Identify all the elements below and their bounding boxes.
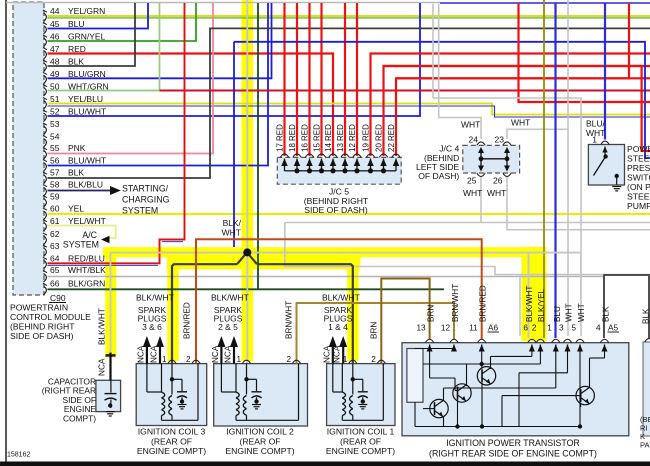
coil 1 internal transformer and capacitor bbox=[352, 364, 354, 380]
svg-text:BLK/WHT: BLK/WHT bbox=[136, 293, 174, 303]
wire WHT gray core bend down toward pin 5 (joins x581) bbox=[580, 253, 582, 300]
svg-text:55: 55 bbox=[50, 143, 60, 153]
wire pin 64 RED/BLU blue stripe lower part bbox=[48, 264, 159, 266]
svg-text:SYSTEM: SYSTEM bbox=[63, 240, 99, 250]
capacitor wire yellow end tick bbox=[106, 354, 116, 357]
highlighted circuit - yellow vertical band to ignition coil 1 pin 1 bbox=[347, 257, 359, 362]
J/C 4 internal double arrows and tie bar bbox=[480, 149, 482, 171]
highlighted circuit - yellow vertical band to ignition coil 3 pin 1 bbox=[167, 257, 179, 362]
wire WHT gray from top to J/C 4 pin 24 bbox=[439, 4, 481, 139]
svg-text:2 & 5: 2 & 5 bbox=[218, 322, 238, 332]
J/C 5 pin 18 connector bump bbox=[293, 154, 301, 157]
svg-text:13: 13 bbox=[416, 324, 426, 333]
svg-text:1: 1 bbox=[592, 135, 597, 145]
svg-text:WHT: WHT bbox=[461, 120, 480, 130]
svg-text:2: 2 bbox=[371, 355, 376, 364]
transistor Q2 symbol bbox=[453, 384, 471, 402]
transistor pin 4 internal arrow bbox=[604, 345, 606, 351]
svg-text:PRESSURE: PRESSURE bbox=[627, 163, 650, 173]
svg-text:RED: RED bbox=[362, 124, 371, 141]
capacitor internal symbol bbox=[110, 380, 112, 392]
wire WHT gray vertical x433 from top bbox=[432, 4, 434, 98]
PCM pin 46 connector bracket bbox=[43, 35, 47, 37]
svg-text:WHT: WHT bbox=[487, 188, 506, 198]
coil 3 internal transformer and capacitor bbox=[171, 364, 173, 380]
transistor internal wiring bbox=[415, 348, 454, 350]
svg-text:YEL: YEL bbox=[68, 204, 84, 214]
J/C 5 pin 19 connector bump bbox=[366, 154, 374, 157]
highlighted BLK/WHT circuit - yellow band vertical from top to junction bbox=[242, 0, 254, 253]
svg-text:18: 18 bbox=[288, 143, 297, 152]
svg-text:19: 19 bbox=[362, 143, 371, 152]
svg-text:1 & 4: 1 & 4 bbox=[328, 322, 348, 332]
svg-text:(REAR OF: (REAR OF bbox=[340, 436, 381, 446]
ignition coil 1 pin 1 bump bbox=[349, 360, 357, 363]
PCM pin 53 connector bracket bbox=[43, 123, 47, 125]
wire WHT gray from J/C 4 pin 23 right bbox=[507, 129, 568, 139]
svg-text:NCA: NCA bbox=[211, 345, 220, 363]
svg-text:(ON POWER: (ON POWER bbox=[627, 182, 650, 192]
J/C 4 pin 24 connector bump bbox=[477, 142, 485, 145]
svg-text:ENGINE COMPT): ENGINE COMPT) bbox=[137, 446, 206, 456]
svg-text:RED: RED bbox=[387, 124, 396, 141]
svg-text:BLU: BLU bbox=[553, 306, 562, 322]
svg-text:48: 48 bbox=[50, 57, 60, 67]
highlighted circuit - yellow vertical band to capacitor bbox=[105, 247, 116, 357]
svg-text:CONTROL MODULE: CONTROL MODULE bbox=[10, 312, 91, 322]
svg-text:NCA: NCA bbox=[136, 345, 145, 363]
svg-text:IGNITION POWER TRANSISTOR: IGNITION POWER TRANSISTOR bbox=[446, 438, 580, 448]
wire pin 55 PNK right then up to top bbox=[48, 3, 214, 154]
wire RED from right edge lane y78.3 down to J/C 5 pin 22 bbox=[396, 78, 650, 156]
svg-text:NCA: NCA bbox=[97, 358, 107, 376]
wire pin 64 RED/BLU with jog then up to top bbox=[48, 3, 185, 263]
PCM pin 45 connector bracket bbox=[43, 23, 47, 25]
PCM pin 58 connector bracket bbox=[43, 185, 47, 187]
wire BLU vertical x234 down to highlight band bbox=[233, 42, 235, 247]
wire pin 48 BLK right then up to top bbox=[48, 3, 136, 66]
svg-text:BRN/RED: BRN/RED bbox=[183, 302, 192, 339]
J/C 5 bus junction dot bbox=[294, 168, 299, 173]
J/C 5 bus junction dot bbox=[354, 168, 359, 173]
svg-text:RED: RED bbox=[313, 124, 322, 141]
transistor pin 13 internal arrow bbox=[429, 345, 431, 351]
svg-text:158162: 158162 bbox=[7, 452, 30, 459]
svg-text:13: 13 bbox=[336, 143, 345, 152]
svg-text:POWER: POWER bbox=[627, 144, 650, 154]
PCM pin 62 connector bracket bbox=[43, 233, 47, 235]
wire pin 46 GRN/YEL right then up to top bbox=[48, 3, 197, 41]
highlighted circuit - yellow vertical band to ignition coil 2 pin 1 bbox=[242, 253, 254, 361]
J/C 5 pin 12 connector bump bbox=[353, 154, 361, 157]
wire WHT gray vertical x568 to transistor pin 3 bbox=[567, 0, 569, 336]
svg-text:WHT: WHT bbox=[511, 118, 530, 128]
wire pin 65 WHT/BLK gray to transistor area bbox=[48, 276, 605, 278]
svg-text:(REAR OF: (REAR OF bbox=[239, 436, 280, 446]
svg-text:A5: A5 bbox=[608, 324, 618, 333]
ignition power transistor box bbox=[402, 343, 629, 436]
svg-text:WHT: WHT bbox=[565, 303, 574, 322]
wire RED lane y78.3 up to top at x629 bbox=[396, 3, 629, 78]
ignition coil 3 box bbox=[136, 364, 207, 426]
ignition coil 2 pin 2 bump bbox=[292, 360, 300, 363]
J/C 5 pin 20 internal arrow bbox=[383, 159, 385, 172]
svg-text:16: 16 bbox=[301, 143, 310, 152]
wire BLU/WHT vertical to power steering pressure switch bbox=[604, 3, 606, 140]
wire pin 50 WHT/GRN light green right then up to top bbox=[48, 3, 160, 91]
wire BLK/WHT dark core to ignition coil 3 pin 1 bbox=[172, 264, 237, 363]
power steering switch pin 1 bump bbox=[601, 141, 609, 144]
wire WHT gray from J/C 4 pin 26 down then right bbox=[507, 177, 650, 230]
svg-text:IGNITION COIL 1: IGNITION COIL 1 bbox=[327, 427, 395, 437]
wire RED lane y66 continuation right bbox=[384, 65, 642, 67]
ignition coil 2 box bbox=[214, 364, 308, 426]
wire WHT gray lane y222.5 to right edge bbox=[285, 222, 650, 224]
transistor Q1 symbol bbox=[430, 399, 448, 417]
svg-text:RED: RED bbox=[324, 124, 333, 141]
transistor pin 6 internal arrow bbox=[531, 345, 533, 351]
transistor pin 11 internal arrow bbox=[481, 345, 483, 351]
J/C 5 pin 14 connector bump bbox=[329, 154, 337, 157]
wire WHT gray stub down beside transistor pin 6 bbox=[519, 275, 521, 337]
wire RED from top down at x518.5 exiting right at y102 bbox=[519, 3, 650, 102]
PCM pin 50 connector bracket bbox=[43, 85, 47, 87]
coil 2 internal transformer and capacitor bbox=[246, 364, 248, 380]
svg-text:SYSTEM: SYSTEM bbox=[122, 206, 158, 216]
svg-text:A6: A6 bbox=[488, 324, 498, 333]
wire WHT gray core vertical through junction down to coil 2 bbox=[246, 0, 248, 363]
svg-text:60: 60 bbox=[50, 204, 60, 214]
svg-text:NCA: NCA bbox=[224, 345, 233, 363]
svg-text:BLK/GRN: BLK/GRN bbox=[68, 279, 105, 289]
wire RED crimson horizontal lane to right edge bbox=[160, 90, 650, 92]
bottom black border bar bbox=[0, 462, 650, 466]
svg-text:56: 56 bbox=[50, 156, 60, 166]
wire pin 64 RED/BLU blue stripe jog part bbox=[162, 241, 183, 243]
J/C 5 pin 13 internal arrow bbox=[344, 159, 346, 172]
svg-text:NCA: NCA bbox=[322, 345, 331, 363]
PCM pin 52 connector bracket bbox=[43, 110, 47, 112]
coil 2 NCA arrows (spark plug outputs) bbox=[217, 336, 225, 347]
svg-text:STEERING: STEERING bbox=[627, 192, 650, 202]
highlighted circuit - yellow horizontal band upper (to power transistor) bbox=[103, 247, 541, 257]
wire pin 47 RED right then down to J/C 5 pin 14 bbox=[48, 54, 334, 157]
PCM pin 51 connector bracket bbox=[43, 98, 47, 100]
svg-text:17: 17 bbox=[276, 143, 285, 152]
wire BLK stub into right edge component bbox=[648, 276, 650, 338]
svg-text:IGNITION COIL 3: IGNITION COIL 3 bbox=[138, 427, 206, 437]
svg-text:BRN/WHT: BRN/WHT bbox=[451, 284, 460, 322]
svg-text:BLK/BLU: BLK/BLU bbox=[68, 180, 103, 190]
svg-text:12: 12 bbox=[348, 143, 357, 152]
svg-text:62: 62 bbox=[50, 229, 60, 239]
wire RED to J/C 5 pin 16 from top bbox=[308, 3, 310, 156]
page left border line bbox=[5, 0, 7, 462]
wire pin 60 YEL to right edge bbox=[48, 213, 650, 215]
power steering switch ground bbox=[612, 186, 621, 188]
svg-text:PUMP): PUMP) bbox=[627, 201, 650, 211]
PCM pin 64 connector bracket bbox=[43, 257, 47, 259]
top blue wire lane bbox=[440, 2, 650, 4]
wire pin 51 YEL/BLU blue stripe bbox=[48, 106, 650, 117]
junction connector J/C 4 box bbox=[463, 145, 520, 173]
wire WHT gray lane y98 right then down to transistor pin 5 bbox=[433, 98, 581, 336]
svg-text:2: 2 bbox=[186, 355, 191, 364]
transistor Q4 symbol bbox=[576, 386, 594, 404]
wire RED from right edge lane y53.5 down to J/C 5 pin 19 bbox=[371, 54, 650, 157]
ignition coil 1 pin 2 bump bbox=[377, 360, 385, 363]
wire RED from right edge lane y66.0 down to J/C 5 pin 20 bbox=[384, 66, 650, 156]
wire BRN/RED from coil 3 pin 2 to transistor pin 11 bbox=[196, 239, 482, 363]
powertrain control module connector box C90 bbox=[13, 2, 44, 295]
svg-text:CHARGING: CHARGING bbox=[122, 195, 170, 205]
svg-text:RED: RED bbox=[288, 124, 297, 141]
J/C 5 pin 19 internal arrow bbox=[370, 159, 372, 172]
svg-text:STEERING: STEERING bbox=[627, 154, 650, 164]
svg-text:57: 57 bbox=[50, 168, 60, 178]
svg-text:BLK: BLK bbox=[602, 306, 611, 322]
ignition coil 3 pin 1 bump bbox=[168, 360, 176, 363]
J/C 5 pin 15 connector bump bbox=[317, 154, 325, 157]
PCM pin 44 connector bracket bbox=[43, 10, 47, 12]
transistor pin 11 bump bbox=[478, 339, 486, 342]
svg-text:RED: RED bbox=[276, 124, 285, 141]
transistor pin 2 bump bbox=[536, 339, 544, 342]
svg-text:24: 24 bbox=[469, 135, 479, 145]
svg-text:BLK/YEL: BLK/YEL bbox=[537, 288, 546, 322]
svg-text:WHT/BLK: WHT/BLK bbox=[68, 265, 106, 275]
svg-text:(REAR OF: (REAR OF bbox=[151, 436, 192, 446]
wire gray core down to capacitor bbox=[110, 253, 112, 353]
highlighted circuit - yellow diagonal right of junction bbox=[247, 252, 257, 266]
svg-text:RED: RED bbox=[375, 124, 384, 141]
svg-text:22: 22 bbox=[387, 143, 396, 152]
J/C 5 pin 22 internal arrow bbox=[395, 159, 397, 172]
wire pin 56 BLU/WHT right then up to top bbox=[48, 3, 269, 166]
PCM pin 49 connector bracket bbox=[43, 72, 47, 74]
wire RED to J/C 5 pin 17 from top bbox=[283, 3, 285, 156]
J/C 5 pin 16 internal arrow bbox=[309, 159, 311, 172]
svg-text:IGNITION COIL 2: IGNITION COIL 2 bbox=[226, 427, 294, 437]
svg-text:COMPT): COMPT) bbox=[63, 414, 96, 424]
highlighted circuit - yellow vertical band to transistor pin 6 bbox=[522, 247, 535, 341]
wire BRN from coil 1 pin 2 to transistor pin 13 bbox=[381, 279, 429, 364]
wire RED bend down at x641.6 exiting right bbox=[642, 66, 650, 151]
svg-text:BLK/WHT: BLK/WHT bbox=[525, 286, 534, 322]
svg-text:ENGINE COMPT): ENGINE COMPT) bbox=[225, 446, 294, 456]
svg-text:PNK: PNK bbox=[68, 143, 86, 153]
wire BLK/WHT diagonal right into junction bbox=[247, 252, 257, 264]
coil 1 NCA arrows (spark plug outputs) bbox=[329, 336, 337, 347]
junction dot of highlighted circuit bbox=[243, 248, 251, 256]
J/C 5 pin 18 internal arrow bbox=[296, 159, 298, 172]
wire gray core down to transistor pin 6 bbox=[528, 253, 530, 338]
wire WHT gray core horizontal through junction bbox=[111, 252, 581, 254]
transistor pin 1 bump bbox=[552, 339, 560, 342]
wire pin 66 BLK/GRN dark green bbox=[48, 288, 445, 290]
svg-text:45: 45 bbox=[50, 19, 60, 29]
svg-text:5: 5 bbox=[571, 324, 576, 333]
ignition coil 3 pin 2 bump bbox=[192, 360, 200, 363]
wire pin 52 BLU/WHT right then up to top bbox=[48, 3, 421, 116]
svg-text:20: 20 bbox=[375, 143, 384, 152]
wire pin 58 BLK/BLU to starting/charging system bbox=[48, 190, 111, 192]
svg-text:4: 4 bbox=[596, 324, 601, 333]
svg-text:1: 1 bbox=[236, 355, 241, 364]
svg-text:25: 25 bbox=[467, 176, 477, 186]
PCM pin 65 connector bracket bbox=[43, 271, 47, 273]
arrow to A/C system bbox=[101, 236, 110, 244]
svg-text:BLK/WHT: BLK/WHT bbox=[322, 293, 360, 303]
svg-text:STARTING/: STARTING/ bbox=[122, 184, 169, 194]
J/C 5 pin 16 connector bump bbox=[305, 154, 313, 157]
transistor pin 5 bump bbox=[576, 339, 584, 342]
svg-text:26: 26 bbox=[493, 176, 503, 186]
svg-text:BRN/WHT: BRN/WHT bbox=[285, 301, 294, 339]
J/C 5 bus junction dot bbox=[330, 168, 335, 173]
right edge component pin bump bbox=[645, 339, 650, 342]
J/C 5 bus junction dot bbox=[307, 168, 312, 173]
PCM pin 59 connector bracket bbox=[43, 196, 47, 198]
transistor pin 3 bump bbox=[563, 339, 571, 342]
transistor pin 5 internal arrow bbox=[579, 345, 581, 351]
ignition coil 2 pin 1 bump bbox=[242, 360, 250, 363]
transistor pin 13 bump bbox=[425, 339, 433, 342]
svg-text:BLK: BLK bbox=[68, 168, 84, 178]
J/C 5 bus junction dot bbox=[368, 168, 373, 173]
svg-text:OF DASH): OF DASH) bbox=[418, 171, 459, 181]
highlighted circuit - yellow vertical band to transistor pin 2 bbox=[534, 247, 547, 341]
svg-text:ENGINE COMPT): ENGINE COMPT) bbox=[326, 446, 395, 456]
PCM pin 48 connector bracket bbox=[43, 60, 47, 62]
svg-text:NCA: NCA bbox=[150, 345, 159, 363]
transistor pin 1 internal arrow bbox=[555, 345, 557, 351]
svg-text:64: 64 bbox=[50, 254, 60, 264]
svg-text:(BEHIND RIGHT: (BEHIND RIGHT bbox=[10, 322, 75, 332]
svg-text:BRN/RED: BRN/RED bbox=[479, 285, 488, 322]
svg-text:C90: C90 bbox=[50, 293, 66, 303]
power steering pressure switch box bbox=[588, 145, 624, 186]
wire pin 61 YEL/WHT loop to A/C system bbox=[48, 226, 116, 239]
J/C 5 bus junction dot bbox=[319, 168, 324, 173]
arrow to starting/charging system bbox=[110, 186, 121, 195]
svg-text:1: 1 bbox=[547, 324, 552, 333]
svg-text:BLK/WHT: BLK/WHT bbox=[97, 308, 107, 345]
transistor Q3 symbol bbox=[477, 367, 495, 385]
capacitor internal junction dot bbox=[108, 403, 112, 407]
J/C 5 pin 22 connector bump bbox=[392, 154, 400, 157]
transistor pin 2 internal arrow bbox=[539, 345, 541, 351]
svg-text:63: 63 bbox=[50, 241, 60, 251]
svg-text:WHT: WHT bbox=[463, 188, 482, 198]
svg-text:11: 11 bbox=[469, 324, 478, 333]
svg-text:23: 23 bbox=[495, 135, 505, 145]
J/C 5 pin 14 internal arrow bbox=[332, 159, 334, 172]
svg-text:BLK: BLK bbox=[68, 57, 84, 67]
svg-text:2: 2 bbox=[286, 355, 291, 364]
svg-text:SWITCH: SWITCH bbox=[627, 173, 650, 183]
top gray wire lane bbox=[6, 2, 440, 4]
svg-text:SIDE OF DASH): SIDE OF DASH) bbox=[10, 331, 74, 341]
svg-text:RED/BLU: RED/BLU bbox=[68, 254, 105, 264]
wire BLK/YEL olive vertical to transistor pin 2 bbox=[543, 0, 545, 338]
PCM pin 61 connector bracket bbox=[43, 220, 47, 222]
svg-text:3 & 6: 3 & 6 bbox=[142, 322, 162, 332]
svg-text:WHT: WHT bbox=[577, 303, 586, 322]
svg-text:54: 54 bbox=[50, 132, 60, 142]
transistor module internal resistor block bbox=[407, 349, 423, 403]
wire pin 51 YEL/BLU yellow line with jog to right edge bbox=[48, 104, 650, 115]
wire pin 44 YEL/GRN yellow line to right edge bbox=[48, 15, 650, 17]
svg-text:(RIGHT REAR SIDE OF ENGINE COM: (RIGHT REAR SIDE OF ENGINE COMPT) bbox=[429, 449, 597, 459]
svg-text:RED: RED bbox=[348, 124, 357, 141]
svg-text:YEL/BLU: YEL/BLU bbox=[68, 94, 103, 104]
PCM pin 54 connector bracket bbox=[43, 136, 47, 138]
svg-text:YEL/GRN: YEL/GRN bbox=[68, 6, 105, 16]
svg-text:PA: PA bbox=[640, 441, 650, 450]
PCM pin 47 connector bracket bbox=[43, 48, 47, 50]
svg-text:6: 6 bbox=[523, 324, 528, 333]
svg-text:RED: RED bbox=[301, 124, 310, 141]
svg-text:WHT: WHT bbox=[222, 227, 241, 237]
wire BLK from transistor pin 4 up then right to edge bbox=[604, 275, 650, 338]
svg-text:GRN/YEL: GRN/YEL bbox=[68, 32, 106, 42]
PCM pin 57 connector bracket bbox=[43, 172, 47, 174]
svg-text:BLU: BLU bbox=[68, 19, 85, 29]
wire pin 45 BLU right then up to top bbox=[48, 3, 149, 29]
cut-off component box at right edge (behind right kick panel) bbox=[643, 342, 650, 436]
wire BLK/GRN vertical branch to top bbox=[257, 3, 259, 289]
svg-text:3: 3 bbox=[559, 324, 564, 333]
wire RED to J/C 5 pin 12 from top bbox=[356, 3, 358, 156]
svg-text:A/C: A/C bbox=[82, 230, 97, 240]
transistor pin 3 internal arrow bbox=[567, 345, 569, 351]
PCM pin 63 connector bracket bbox=[43, 245, 47, 247]
wire WHT gray rectangle route lower bbox=[285, 223, 650, 275]
svg-text:52: 52 bbox=[50, 107, 60, 117]
svg-text:46: 46 bbox=[50, 32, 60, 42]
ignition coil 1 box bbox=[327, 364, 395, 426]
PCM pin 56 connector bracket bbox=[43, 160, 47, 162]
J/C 5 bus junction dot bbox=[381, 168, 386, 173]
svg-text:BLU/WHT: BLU/WHT bbox=[68, 156, 106, 166]
svg-text:BLK/WHT: BLK/WHT bbox=[211, 293, 249, 303]
svg-text:BLK: BLK bbox=[642, 308, 650, 324]
capacitor box bbox=[96, 380, 121, 411]
J/C 4 pin 25 connector bump (bottom) bbox=[477, 173, 485, 176]
svg-text:2: 2 bbox=[532, 324, 537, 333]
wire BLU vertical to transistor pin 1 bbox=[554, 3, 556, 338]
J/C 5 pin 17 connector bump bbox=[280, 154, 288, 157]
svg-text:65: 65 bbox=[50, 265, 60, 275]
wire BRN/WHT from coil 2 pin 2 to transistor pin 12 bbox=[297, 303, 455, 364]
wire pin 57 BLK right, up, and right to edge bbox=[48, 28, 650, 178]
coil 3 NCA arrows (spark plug outputs) bbox=[143, 336, 151, 347]
J/C 5 bus junction dot bbox=[342, 168, 347, 173]
PCM pin 60 connector bracket bbox=[43, 208, 47, 210]
wire RED to J/C 5 pin 15 from top bbox=[320, 3, 322, 156]
J/C 4 pin 26 connector bump (bottom) bbox=[503, 173, 511, 176]
highlighted circuit - yellow diagonal left of junction bbox=[238, 252, 248, 266]
svg-text:SIDE OF DASH): SIDE OF DASH) bbox=[304, 205, 368, 215]
wire BLK/WHT dark core to ignition coil 1 pin 1 bbox=[257, 264, 353, 363]
svg-text:66: 66 bbox=[50, 279, 60, 289]
junction connector J/C 5 box bbox=[277, 157, 401, 184]
J/C 4 pin 23 connector bump bbox=[503, 142, 511, 145]
svg-text:BRN: BRN bbox=[427, 305, 436, 322]
svg-text:15: 15 bbox=[313, 143, 322, 152]
wire BLK/WHT black segment into capacitor (NCA) bbox=[109, 353, 111, 381]
